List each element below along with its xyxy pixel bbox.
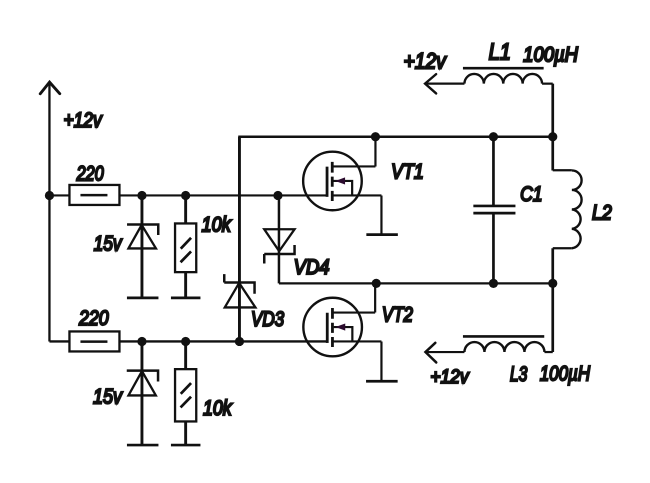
capacitor C1 [473, 137, 515, 284]
resistor 10k (upper) [175, 195, 196, 297]
+12v feed arrow (top right) [425, 74, 464, 93]
svg-text:15v: 15v [94, 233, 123, 256]
svg-text:10k: 10k [203, 397, 233, 421]
resistor 220 (bottom) [69, 331, 119, 351]
wire: VT2 gate rail left segment with corner from +12v line [49, 340, 69, 342]
svg-text:VT1: VT1 [391, 160, 424, 184]
svg-text:VD3: VD3 [251, 309, 285, 332]
resistor 220 (top) [69, 185, 119, 205]
zener diode VD4 [264, 229, 294, 263]
wire: VD3 cross-coupling vertical [238, 137, 241, 342]
wire: VD4 cross-coupling vertical [278, 195, 281, 283]
svg-text:C1: C1 [520, 182, 542, 206]
svg-text:220: 220 [76, 162, 104, 186]
svg-text:VD4: VD4 [294, 256, 330, 279]
transistor VT1 (MOSFET) [303, 137, 381, 235]
node: top rail right junction [548, 132, 557, 141]
wire: VT2 gate rail [119, 340, 327, 342]
wire: VT2 drain rail (bottom) [279, 282, 553, 284]
svg-text:100µH: 100µH [523, 44, 579, 67]
svg-text:L1: L1 [489, 39, 511, 65]
svg-text:100µH: 100µH [540, 362, 590, 386]
node: VD3 anode junction [235, 337, 244, 346]
node: zener 15v top junction [137, 191, 146, 200]
svg-text:220: 220 [78, 307, 109, 331]
svg-text:15v: 15v [93, 385, 123, 409]
node: bottom rail right junction [548, 279, 557, 288]
node: left rail junction top [45, 191, 54, 200]
zener diode 15v (lower) [127, 341, 158, 445]
wire: right vertical (L1 to L2) [551, 84, 554, 171]
node: C1 top junction [489, 132, 498, 141]
wire: VT1 gate rail left segment [49, 194, 69, 196]
svg-text:L3: L3 [510, 362, 528, 386]
zener diode 15v (upper) [127, 195, 158, 297]
svg-text:10k: 10k [202, 213, 232, 237]
svg-text:+12v: +12v [63, 110, 102, 133]
ground (VT1 source) [366, 233, 398, 236]
node: VT2 drain junction [372, 279, 381, 288]
node: 10k bottom junction [181, 337, 190, 346]
transistor VT2 (MOSFET) [303, 283, 381, 381]
node: zener 15v bottom junction [137, 337, 146, 346]
ground (VT2 source) [366, 380, 398, 383]
inductor L3 [463, 336, 553, 352]
svg-text:+12v: +12v [404, 49, 448, 73]
inductor L1 [463, 68, 553, 84]
node: VD4 anode junction [273, 191, 282, 200]
node: VT1 drain junction [371, 132, 380, 141]
ground (under upper 10k) [171, 297, 201, 300]
inductor L2 [553, 170, 582, 248]
wire: VT1 drain rail (top) [238, 136, 553, 139]
node: C1 bottom junction [489, 279, 498, 288]
+12v feed arrow (bottom right) [425, 343, 464, 363]
+12v supply arrow (top left) [40, 82, 60, 342]
resistor 10k (lower) [175, 341, 196, 445]
wire: right vertical (L2 to L3) [551, 248, 554, 352]
svg-text:VT2: VT2 [382, 304, 413, 327]
svg-text:+12v: +12v [430, 365, 470, 387]
ground (under lower 15v zener) [127, 444, 159, 447]
node: 10k top junction [181, 191, 190, 200]
ground (under upper 15v zener) [127, 297, 159, 300]
svg-text:L2: L2 [592, 201, 612, 225]
zener diode VD3 [224, 274, 255, 307]
ground (under lower 10k) [171, 444, 201, 447]
wire: VT1 gate rail [119, 194, 327, 196]
